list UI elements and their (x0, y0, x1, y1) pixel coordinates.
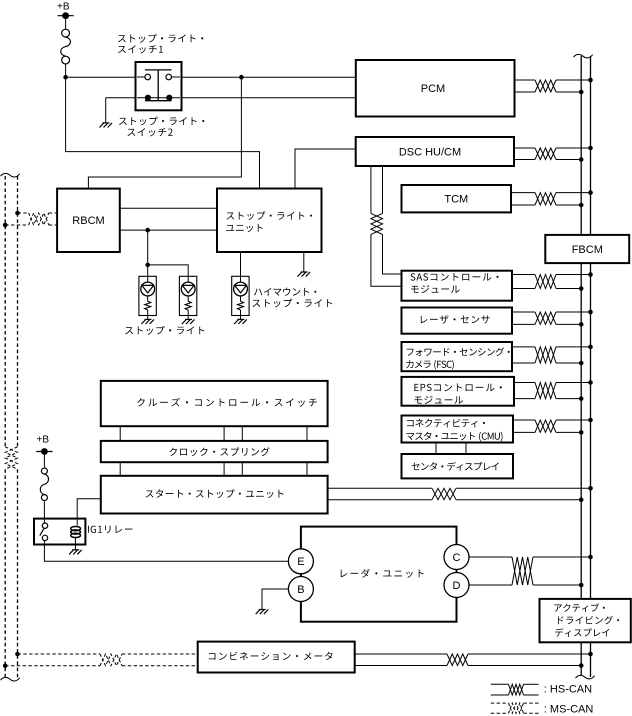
forward sensing camera FSC (402, 342, 513, 371)
HS-CAN bus line 2 (right) (590, 56, 592, 677)
label stop light switch 1 line 2 (118, 45, 163, 53)
wire stop light unit to DSC HU/CM (295, 149, 356, 189)
label active driving display line 3 (555, 628, 609, 637)
HS-CAN bus top break (574, 54, 593, 58)
label laser sensor (421, 315, 490, 323)
MS-CAN bus bottom break (1, 677, 20, 681)
wire +B branch to stop light unit (66, 77, 260, 188)
node junction +B (63, 75, 68, 80)
twisted pair DSC HU/CM (535, 148, 556, 160)
node TCM CAN-L on bus (579, 203, 584, 208)
wire PCM CAN pair to bus (515, 79, 536, 81)
node RBCM MS-CAN H (15, 211, 20, 216)
stop light lamp 2 (179, 276, 196, 315)
radar unit pin C (444, 545, 469, 570)
node meter CAN-L on bus (579, 663, 584, 668)
wire radar unit pin B to ground (262, 589, 288, 610)
twisted pair radar unit (512, 557, 533, 585)
high-mount stop light lamp (232, 276, 249, 315)
node start-stop CAN-L on bus (579, 497, 584, 502)
node FSC CAN-H on bus (588, 345, 593, 350)
MS-CAN bus line 2 (right, dashed) (17, 176, 19, 447)
ground for stop light unit (301, 271, 308, 273)
node junction switch output (239, 75, 244, 80)
wire laser sensor CAN pair to bus (512, 311, 535, 313)
clock spring (101, 441, 328, 462)
node DSC CAN-L on bus (579, 157, 584, 162)
radar unit pin D (444, 573, 469, 598)
wire combination meter MS-CAN pair (dashed) (18, 653, 101, 655)
wire radar pin C to bus (469, 556, 512, 558)
wire ground stub for switch 2 (105, 98, 107, 123)
svg-text:FBCM: FBCM (572, 244, 603, 256)
svg-text:RBCM: RBCM (72, 215, 104, 227)
node SAS CAN-H on bus (588, 272, 593, 277)
legend MS-CAN symbol (491, 702, 509, 704)
node EPS CAN-H on bus (588, 380, 593, 385)
wire FSC camera CAN pair to bus (512, 346, 535, 348)
label stop lights (125, 326, 204, 335)
label stop light unit line 1 (226, 211, 312, 220)
connectivity master unit CMU (402, 416, 514, 443)
wire CMU CAN pair to bus (513, 419, 535, 421)
svg-text:E: E (297, 556, 304, 568)
node PCM CAN-L on bus (579, 90, 584, 95)
wire RBCM to stop light unit (2 lines) (120, 207, 217, 209)
wire EPS control module CAN pair to bus (514, 382, 535, 384)
node meter MS-CAN H (15, 652, 20, 657)
MS-CAN bus line 1 (left, dashed) (4, 176, 6, 447)
node PCM CAN-H on bus (588, 78, 593, 83)
node CMU CAN-L on bus (579, 430, 584, 435)
twisted pair combination meter HS-CAN (447, 654, 468, 666)
IG1 relay coil (76, 519, 78, 526)
wire switch junction to RBCM (88, 77, 241, 188)
wire radar pin D to bus (469, 584, 512, 586)
svg-text:C: C (453, 552, 461, 564)
node radar CAN-L on bus (579, 583, 584, 588)
HS-CAN bus bottom break (576, 675, 595, 679)
start-stop unit (101, 476, 328, 514)
legend HS-CAN symbol (491, 683, 509, 685)
wire SAS control module CAN pair to bus (512, 274, 535, 276)
svg-text:TCM: TCM (444, 194, 468, 206)
wire IG1 relay coil ground (74, 545, 76, 550)
radar unit pin E (288, 549, 313, 574)
node meter MS-CAN L (3, 663, 8, 668)
fusible link top (62, 29, 70, 37)
RBCM (57, 189, 120, 252)
+B supply (top) (58, 15, 74, 17)
ground for stop light switch 2 (103, 122, 110, 124)
DSC HU/CM (356, 137, 514, 166)
node start-stop CAN-H on bus (588, 486, 593, 491)
wire +B to stop light switch 1 and PCM (66, 76, 356, 78)
node radar CAN-H on bus (588, 555, 593, 560)
wire IG1 relay coil to start-stop unit (77, 499, 101, 519)
TCM (402, 185, 512, 212)
wire IG1 relay output to radar unit pin E (44, 545, 288, 562)
ground for radar unit pin B (259, 609, 266, 611)
label combination meter (209, 652, 333, 661)
wire CMU to center display (435, 443, 437, 455)
svg-text:DSC HU/CM: DSC HU/CM (399, 147, 461, 159)
wire start-stop unit CAN pair to bus (328, 487, 432, 489)
node SAS CAN-L on bus (579, 286, 584, 291)
svg-text:B: B (297, 584, 304, 596)
SAS control module (402, 271, 513, 301)
label active driving display line 2 (558, 616, 619, 625)
node laser CAN-H on bus (588, 310, 593, 315)
ground for IG1 relay (72, 549, 79, 551)
IG1 relay box (34, 519, 85, 545)
+B supply (lower) (36, 451, 52, 453)
twisted pair CMU (535, 420, 556, 432)
IG1 relay switch contact (43, 519, 45, 523)
twisted pair combination meter MS-CAN (dashed) (100, 654, 122, 666)
label EPS line 1 (414, 383, 501, 391)
wire cruise switch to clock spring connectors (119, 426, 121, 441)
node lamp feed junction 1 (145, 228, 150, 233)
twisted pair EPS (535, 383, 556, 399)
node meter CAN-H on bus (588, 652, 593, 657)
HS-CAN bus line 1 (left) (580, 56, 582, 676)
wire stop light unit ground stub (303, 252, 305, 272)
wire DSC-SAS lower segments (371, 234, 402, 286)
node EPS CAN-L on bus (579, 396, 584, 401)
label EPS line 2 (415, 396, 464, 404)
center display (402, 454, 514, 478)
radar unit pin B (288, 577, 313, 602)
radar unit box (301, 527, 457, 622)
label active driving display line 1 (554, 603, 605, 612)
node DSC CAN-H on bus (588, 146, 593, 151)
label stop light switch 2 line 2 (127, 128, 172, 136)
label CMU line 1 (407, 419, 485, 428)
wire stop light unit to high-mount stop light (240, 252, 242, 276)
FBCM (inline on bus) (545, 235, 629, 263)
twisted pair start-stop unit (432, 488, 456, 499)
label radar unit (341, 569, 424, 578)
stop light unit (217, 189, 322, 253)
svg-text:+B: +B (57, 2, 70, 13)
MS-CAN bus twist (5, 447, 17, 469)
svg-text:: MS-CAN: : MS-CAN (544, 703, 594, 715)
stop light switch 2 contacts (137, 97, 180, 99)
label stop light switch 2 line 1 (119, 117, 204, 126)
label clock spring (169, 447, 269, 456)
twisted pair DSC-SAS (371, 213, 383, 234)
MS-CAN bus top break (1, 173, 20, 177)
label SAS control module line 2 (411, 285, 460, 293)
node TCM CAN-H on bus (588, 190, 593, 195)
svg-text:PCM: PCM (421, 83, 445, 95)
svg-text:D: D (453, 580, 461, 592)
stop light switch 1 contacts (145, 69, 172, 71)
label high-mount stop light line 1 (254, 288, 316, 296)
node laser CAN-L on bus (579, 322, 584, 327)
twisted pair SAS (535, 275, 556, 289)
node RBCM MS-CAN L (3, 223, 8, 228)
cruise control switch (101, 381, 328, 426)
wire stop light feed to lamps (147, 230, 149, 276)
combination meter (198, 642, 355, 673)
laser sensor (402, 308, 513, 334)
label start-stop unit (146, 489, 284, 498)
label CMU line 2 (406, 432, 502, 442)
label IG1 relay (88, 525, 133, 533)
wire stop light switch 2 to PCM (106, 97, 356, 99)
wire DSC HU/CM to SAS control module (twisted) (370, 166, 372, 213)
label SAS control module line 1 (410, 273, 498, 281)
node FSC CAN-L on bus (579, 361, 584, 366)
label stop light switch 1 line 1 (118, 34, 203, 43)
svg-text:+B: +B (37, 434, 50, 445)
twisted pair RBCM (dashed) (29, 213, 49, 225)
stop light lamp 1 (139, 276, 156, 315)
label cruise control switch (137, 398, 317, 407)
label high-mount stop light line 2 (252, 299, 332, 308)
twisted pair PCM (535, 80, 556, 92)
label stop light unit line 2 (226, 224, 263, 232)
svg-text:: HS-CAN: : HS-CAN (544, 683, 592, 695)
label FSC line 2 (406, 360, 453, 370)
wire branch to stop light lamp 2 (148, 265, 189, 276)
wire clock spring to start-stop unit connectors (119, 462, 121, 476)
node CMU CAN-H on bus (588, 418, 593, 423)
active driving display (inline on bus) (540, 599, 631, 642)
EPS control module (402, 377, 515, 406)
twisted pair FSC (535, 347, 556, 363)
wire DSC HU/CM CAN pair to bus (514, 147, 535, 149)
PCM (356, 60, 515, 117)
wire combination meter HS-CAN pair to bus (355, 653, 447, 655)
wire TCM CAN pair to bus (511, 192, 535, 194)
twisted pair laser sensor (535, 312, 556, 324)
label center display (412, 462, 499, 471)
label FSC line 1 (407, 347, 510, 356)
node lamp feed junction 2 (145, 263, 150, 268)
twisted pair TCM (535, 193, 556, 205)
fusible link lower (41, 468, 47, 474)
stop light switch box (136, 62, 182, 110)
wire RBCM MS-CAN pair (dashed) (18, 212, 29, 214)
